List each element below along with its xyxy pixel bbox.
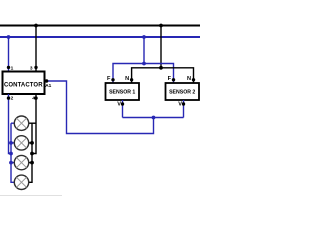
svg-text:2: 2 [11,96,14,102]
svg-text:SENSOR 2: SENSOR 2 [169,90,195,96]
svg-text:CONTACTOR: CONTACTOR [4,83,43,89]
svg-text:SENSOR 1: SENSOR 1 [109,90,135,96]
svg-text:4: 4 [32,96,35,102]
svg-text:N: N [125,76,129,82]
svg-text:V: V [178,102,182,108]
svg-text:1: 1 [11,65,14,71]
svg-text:3: 3 [30,65,33,71]
svg-text:V: V [117,102,121,108]
svg-text:N: N [187,76,191,82]
svg-text:A1: A1 [45,83,51,89]
svg-text:F: F [107,76,111,82]
svg-text:F: F [168,76,172,82]
